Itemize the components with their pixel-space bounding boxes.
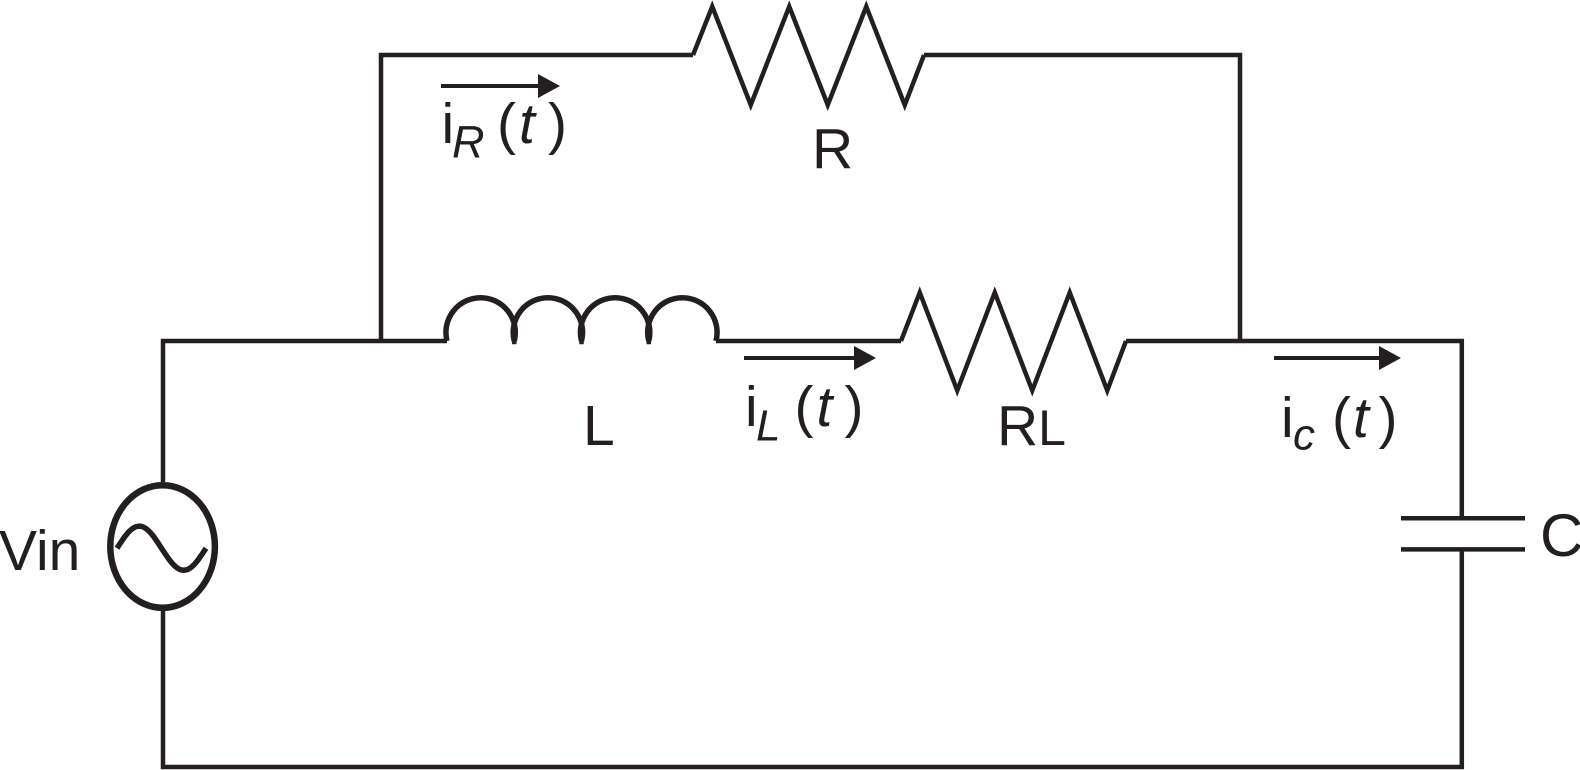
capacitor C bottom plate	[1401, 547, 1525, 552]
svg-text:L: L	[583, 394, 615, 458]
AC source sine wave	[117, 526, 206, 570]
arrowhead i_L	[854, 346, 876, 370]
inductor L	[446, 298, 717, 341]
arrowhead i_R	[538, 74, 560, 98]
wire middle left segment with corner to Vin source top	[163, 341, 447, 482]
svg-text:C: C	[1540, 502, 1580, 569]
capacitor C top plate	[1401, 516, 1525, 521]
svg-text:R: R	[812, 117, 853, 181]
wire inductor to resistor RL	[716, 339, 901, 344]
svg-text:iR(t): iR(t)	[442, 92, 567, 168]
inductor junction stems	[514, 340, 649, 344]
svg-text:Vin: Vin	[0, 519, 80, 583]
wire top branch left vertical and top horizontal to resistor R	[381, 55, 693, 343]
arrow shaft i_L	[744, 356, 856, 360]
wire capacitor bottom to bottom-right corner, bottom wire, up-left to Vin source bottom	[163, 552, 1462, 768]
svg-text:ic(t): ic(t)	[1281, 386, 1397, 460]
wire from resistor R to top-right corner down to middle wire	[924, 55, 1240, 343]
resistor R	[693, 7, 924, 106]
svg-text:RL: RL	[997, 394, 1066, 458]
svg-text:iL(t): iL(t)	[745, 375, 863, 451]
arrow shaft i_R	[441, 84, 540, 88]
arrow shaft i_c	[1274, 356, 1381, 360]
AC source Vin circle	[110, 485, 215, 608]
resistor RL	[901, 293, 1126, 391]
wire RL to right corner down to capacitor top plate	[1126, 341, 1462, 516]
arrowhead i_c	[1379, 346, 1401, 370]
